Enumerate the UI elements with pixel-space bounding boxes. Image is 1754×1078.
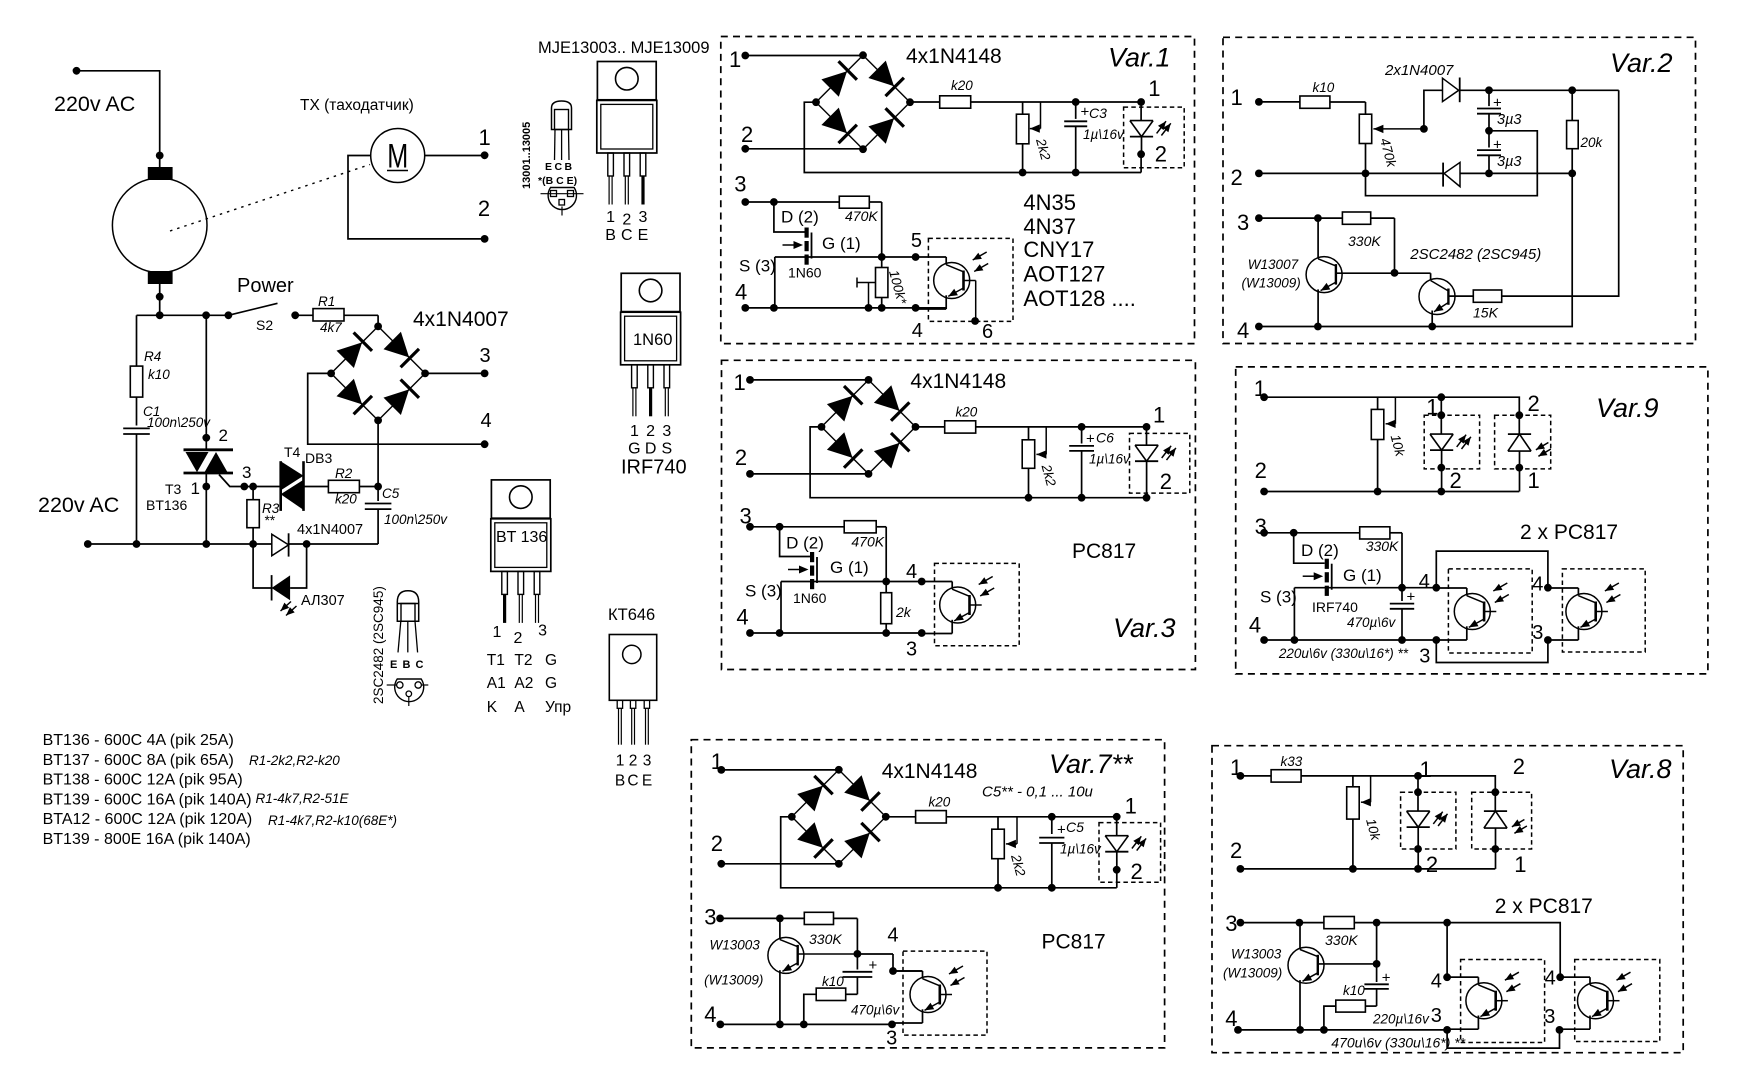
svg-text:BT138 - 600C 12A (pik 95A): BT138 - 600C 12A (pik 95A) (43, 772, 243, 789)
svg-text:S (3): S (3) (745, 582, 782, 601)
svg-text:S: S (661, 441, 672, 458)
svg-text:Var.7**: Var.7** (1049, 749, 1134, 779)
svg-text:BT136 - 600C 4A (pik 25A): BT136 - 600C 4A (pik 25A) (43, 732, 234, 749)
svg-text:3: 3 (242, 463, 251, 482)
svg-text:4: 4 (735, 280, 747, 305)
svg-text:BTA12 - 600C 12A (pik 120A): BTA12 - 600C 12A (pik 120A) (43, 811, 253, 828)
svg-text:k20: k20 (951, 78, 973, 93)
svg-text:T4: T4 (284, 444, 301, 460)
wire opto2 collector drop Var.8 (1447, 923, 1564, 990)
svg-text:330K: 330K (809, 931, 842, 947)
svg-text:k10: k10 (1313, 80, 1335, 95)
node 3 Var.3 (740, 504, 754, 531)
label 4x1N4007 (413, 308, 509, 331)
svg-text:1µ\16v: 1µ\16v (1060, 842, 1102, 857)
svg-text:1: 1 (1426, 395, 1438, 420)
label 13001..13005 (521, 122, 533, 189)
label 4x1N4148 Var.3 (910, 370, 1006, 393)
svg-text:3: 3 (1532, 622, 1543, 644)
svg-text:B: B (565, 161, 573, 173)
svg-text:2: 2 (1450, 468, 1462, 493)
label 470u note Var.8 (1331, 1035, 1465, 1051)
label pin 4 (481, 410, 492, 432)
wire 2 Var.9 (1264, 488, 1519, 496)
node 4 Var.3 (736, 605, 753, 637)
node 3 Var.8 (1225, 911, 1244, 936)
svg-text:2: 2 (735, 445, 747, 470)
wire 1 Var.7 (721, 769, 839, 771)
package TO-220 1N60 IRF740 (621, 273, 681, 416)
node 1 Var.1 (729, 47, 749, 72)
svg-text:4: 4 (481, 410, 492, 432)
dashed box opto2 Var.9 (1562, 569, 1645, 652)
svg-text:G: G (545, 675, 557, 692)
trimmer 2k2 Var.7 (992, 817, 1029, 888)
svg-text:4N35: 4N35 (1023, 190, 1076, 215)
svg-text:*(B C E): *(B C E) (538, 175, 577, 187)
label 4x1N4148 Var.1 (906, 45, 1002, 68)
svg-text:2: 2 (711, 831, 723, 856)
svg-text:k33: k33 (1281, 754, 1303, 769)
svg-text:2k: 2k (895, 604, 912, 620)
node base junction Var.7 (854, 950, 894, 958)
resistor R4 k10 (130, 349, 170, 426)
wire bridge to pin 3 (425, 370, 488, 378)
svg-text:BT137 - 600C 8A (pik 65A): BT137 - 600C 8A (pik 65A) (43, 752, 234, 769)
svg-text:АЛ307: АЛ307 (301, 593, 345, 609)
LED Var.3 (1135, 403, 1176, 498)
svg-text:T3: T3 (165, 481, 182, 497)
wire 2 Var.3 (750, 473, 869, 475)
svg-text:A: A (514, 699, 525, 716)
svg-text:C5: C5 (382, 486, 400, 501)
wire opto1 collector drop Var.8 (1431, 923, 1451, 993)
svg-text:3: 3 (1225, 911, 1237, 936)
svg-text:1: 1 (1528, 468, 1540, 493)
svg-text:E: E (545, 161, 552, 173)
dashed box LED1 Var.8 (1401, 792, 1456, 849)
svg-text:220v AC: 220v AC (38, 493, 119, 517)
svg-text:2: 2 (646, 423, 655, 440)
resistor R3 (247, 487, 280, 545)
svg-text:330K: 330K (1325, 932, 1358, 948)
svg-text:T2: T2 (514, 652, 532, 669)
svg-text:MJE13003.. MJE13009: MJE13003.. MJE13009 (538, 39, 710, 57)
resistor 470K Var.3 (844, 521, 886, 582)
wire 3 Var.9 (1264, 529, 1360, 537)
svg-text:2 x PC817: 2 x PC817 (1495, 895, 1593, 918)
node 1 Var.3 (734, 370, 754, 395)
capacitor 3u3 lower (1477, 131, 1521, 174)
dashed box Var.3 (722, 360, 1196, 669)
svg-text:2: 2 (741, 122, 753, 147)
wire 220v AC phase to motor (73, 67, 164, 167)
label 220u note Var.9 (1278, 646, 1409, 661)
svg-text:+: + (1086, 430, 1095, 447)
diode D2 1N4007 (1443, 162, 1576, 186)
wire diac to R2 (304, 486, 329, 488)
svg-text:3: 3 (662, 423, 671, 440)
dashed box opto2 Var.8 (1575, 960, 1660, 1042)
optocoupler transistor Var.1 (912, 252, 993, 343)
resistor 20k Var.2 (1567, 90, 1604, 173)
svg-text:Var.1: Var.1 (1108, 43, 1171, 73)
svg-text:5: 5 (911, 230, 922, 252)
svg-text:+: + (1382, 970, 1391, 987)
svg-text:1: 1 (1420, 757, 1432, 782)
svg-text:4: 4 (736, 605, 748, 630)
dashed box opto Var.1 (928, 238, 1013, 321)
svg-text:+: + (869, 957, 878, 974)
svg-text:4: 4 (1431, 971, 1442, 993)
trimmer 2k2 Var.1 (1016, 102, 1053, 173)
dashed box opto Var.7 (903, 951, 987, 1035)
wire caps midpoint loop (1366, 131, 1538, 196)
resistor 330K Var.2 (1342, 212, 1394, 272)
node 4 Var.2 (1237, 318, 1263, 343)
optocoupler PC817 no2 Var.9 (1548, 583, 1621, 640)
svg-text:k20: k20 (929, 795, 951, 810)
svg-text:3µ3: 3µ3 (1497, 112, 1521, 128)
label 4x1N4148 Var.7 (882, 760, 978, 783)
label PC817 Var.7 (1042, 931, 1106, 954)
svg-text:15K: 15K (1473, 305, 1499, 321)
svg-text:3: 3 (480, 345, 491, 367)
svg-text:2 x PC817: 2 x PC817 (1520, 521, 1618, 544)
wire power rail (137, 311, 233, 319)
svg-text:3: 3 (704, 905, 716, 930)
svg-text:4k7: 4k7 (320, 320, 342, 335)
capacitor C6 1u/16v (1069, 423, 1131, 498)
svg-text:2: 2 (1528, 391, 1540, 416)
optocoupler PC817 Var.3 (922, 577, 995, 634)
svg-text:20k: 20k (1580, 135, 1604, 150)
svg-text:220µ\16v: 220µ\16v (1372, 1012, 1430, 1027)
label Var.2 (1610, 48, 1673, 78)
svg-text:6: 6 (982, 321, 993, 343)
svg-text:2x1N4007: 2x1N4007 (1384, 62, 1454, 79)
capacitor C5 1u/16v Var.7 (1039, 813, 1102, 888)
resistor 470K Var.1 (839, 196, 881, 257)
mosfet 1N60 Var.3 (745, 527, 886, 633)
svg-text:W13003: W13003 (710, 938, 761, 953)
diode D1 1N4007 (1443, 78, 1619, 103)
diac T4 DB3 (281, 444, 333, 511)
node 2 Var.9 (1255, 458, 1268, 495)
svg-text:BT139 - 600C 16A (pik 140A): BT139 - 600C 16A (pik 140A) (43, 791, 252, 808)
resistor 330K Var.9 (1360, 527, 1402, 588)
node 3 Var.9 (1255, 514, 1268, 539)
svg-text:D (2): D (2) (781, 208, 819, 227)
resistor k20 Var.7 (886, 795, 1117, 824)
transistor Q1 W13007 (1242, 218, 1395, 326)
svg-text:1: 1 (1231, 85, 1243, 110)
wire rail 4 Var.1 (745, 304, 946, 312)
svg-text:4: 4 (1419, 571, 1430, 593)
svg-text:IRF740: IRF740 (621, 457, 687, 479)
bridge rectifier 4x1N4007 (327, 323, 429, 425)
capacitor C5 100n/250v (307, 486, 449, 544)
svg-text:100n\250v: 100n\250v (147, 415, 211, 430)
dashed box Var.2 (1223, 37, 1696, 343)
svg-text:E: E (390, 659, 397, 671)
svg-text:4x1N4148: 4x1N4148 (910, 370, 1006, 393)
label 220v AC top (54, 92, 135, 116)
dashed box LED2 Var.8 (1472, 792, 1532, 849)
resistor k10 Var.8 (1324, 983, 1377, 1030)
dashed box opto Var.3 (935, 563, 1020, 645)
transistor Q2 2SC2482 (1409, 246, 1541, 327)
svg-text:2: 2 (1426, 852, 1438, 877)
bridge 4x1N4148 Var.1 (812, 51, 914, 153)
svg-text:(W13009): (W13009) (704, 973, 763, 988)
wire 1 to bridge (745, 55, 863, 57)
pin labels E B C (390, 659, 424, 671)
dashed box LED1 Var.9 (1424, 415, 1479, 469)
package TO-220 MJE1300x (597, 62, 657, 205)
svg-text:1: 1 (191, 479, 200, 498)
pin labels MJE1300x (605, 209, 648, 244)
svg-text:G: G (628, 441, 640, 458)
svg-text:2: 2 (1513, 754, 1525, 779)
resistor 15K Var.2 (1473, 290, 1502, 321)
dashed box LED2 Var.9 (1495, 415, 1551, 469)
svg-text:R1-4k7,R2-k10(68E*): R1-4k7,R2-k10(68E*) (268, 813, 397, 828)
svg-text:A2: A2 (514, 675, 533, 692)
optocoupler PC817 no1 Var.9 (1436, 583, 1509, 640)
svg-text:3: 3 (1544, 1006, 1555, 1028)
svg-text:1: 1 (493, 624, 502, 641)
label opto types (1023, 190, 1136, 311)
svg-text:R1: R1 (318, 294, 335, 309)
svg-text:3: 3 (1419, 646, 1430, 668)
svg-text:BT136: BT136 (146, 497, 187, 513)
svg-text:B: B (605, 227, 616, 244)
svg-text:330K: 330K (1348, 233, 1381, 249)
svg-text:S2: S2 (256, 317, 273, 333)
resistor 330K Var.7 (804, 912, 857, 953)
triac T3 BT136 (146, 315, 251, 544)
wire rail 4 Var.7 (720, 1021, 897, 1050)
LED1 Var.8 (1407, 757, 1448, 877)
mosfet IRF740 Var.9 (1260, 533, 1402, 640)
svg-text:КТ646: КТ646 (608, 606, 655, 624)
label 2x1N4007 (1384, 62, 1454, 79)
svg-text:4x1N4148: 4x1N4148 (906, 45, 1002, 68)
svg-text:3: 3 (1431, 1005, 1442, 1027)
svg-text:1: 1 (616, 753, 625, 770)
svg-text:1: 1 (1153, 403, 1165, 428)
trimmer 10k Var.9 (1371, 397, 1408, 491)
label MJE13003.. MJE13009 (538, 39, 710, 57)
svg-text:4: 4 (704, 1002, 716, 1027)
svg-text:+: + (1057, 822, 1066, 839)
wire 1 to LED2 Var.9 (1441, 397, 1519, 415)
wire bridge left loop Var.7 (781, 817, 1117, 892)
svg-text:3: 3 (639, 209, 648, 226)
svg-text:R1-2k2,R2-k20: R1-2k2,R2-k20 (249, 753, 340, 768)
resistor k33 Var.8 (1240, 754, 1418, 782)
svg-text:k20: k20 (335, 492, 357, 507)
svg-text:C5** - 0,1 ... 10u: C5** - 0,1 ... 10u (982, 784, 1094, 801)
pin labels BT136 (487, 623, 571, 717)
node 3 Var.7 (704, 905, 724, 930)
node 1 Var.8 (1230, 755, 1244, 780)
svg-text:1N60: 1N60 (633, 331, 672, 349)
svg-text:4N37: 4N37 (1023, 214, 1076, 239)
node 2 Var.8 (1230, 838, 1244, 873)
resistor k20 Var.3 (916, 405, 1147, 434)
svg-text:1: 1 (729, 47, 741, 72)
package TO-220 BT136 (491, 480, 551, 623)
svg-text:IRF740: IRF740 (1312, 599, 1358, 615)
svg-text:Power: Power (237, 275, 294, 297)
label C5 note Var.7 (982, 784, 1094, 801)
label 2 x PC817 Var.8 (1495, 895, 1593, 918)
svg-text:1N60: 1N60 (788, 265, 822, 281)
capacitor 470u Var.7 (843, 954, 901, 1018)
svg-text:2: 2 (629, 753, 638, 770)
svg-text:2: 2 (1155, 142, 1167, 167)
svg-text:4: 4 (1237, 318, 1249, 343)
LED АЛ307 (253, 544, 345, 616)
wire right vertical Var.2 (1502, 90, 1619, 296)
package TO-126 KT646 (608, 606, 657, 745)
wire bridge bottom to C5 (377, 420, 379, 501)
svg-text:1: 1 (1125, 794, 1137, 819)
svg-text:Var.8: Var.8 (1609, 754, 1672, 784)
node 4 Var.7 (704, 1002, 724, 1028)
svg-text:R1-4k7,R2-51E: R1-4k7,R2-51E (256, 791, 350, 806)
svg-text:k10: k10 (148, 367, 170, 382)
wire 3 Var.8 (1240, 919, 1324, 927)
optocoupler PC817 no1 Var.8 (1448, 972, 1521, 1029)
capacitor 3u3 upper (1477, 90, 1521, 134)
svg-text:3: 3 (886, 1028, 897, 1050)
wire rail 4 Var.3 (750, 629, 926, 660)
svg-text:330K: 330K (1366, 538, 1399, 554)
trimmer 10k Var.8 (1347, 776, 1384, 869)
wire to bridge top (377, 315, 379, 326)
trimmer 470k Var.2 (1359, 102, 1428, 173)
svg-text:R4: R4 (144, 349, 161, 364)
svg-text:S (3): S (3) (1260, 588, 1297, 607)
svg-text:Упр: Упр (545, 699, 571, 716)
svg-text:k10: k10 (1343, 983, 1365, 998)
svg-text:1: 1 (734, 370, 746, 395)
package TO-92 2SC2482 side view (371, 586, 419, 704)
svg-text:+: + (1407, 589, 1416, 606)
svg-text:4x1N4007: 4x1N4007 (297, 522, 363, 538)
label TX tachometer (300, 97, 414, 114)
resistor k10 Var.2 (1259, 80, 1366, 108)
wire rail 4 Var.8 (1238, 1026, 1451, 1034)
optocoupler PC817 Var.7 (892, 966, 965, 1023)
pin labels KT646 (615, 753, 652, 790)
wire bridge left loop Var.1 (804, 102, 1141, 176)
svg-text:4x1N4007: 4x1N4007 (413, 308, 509, 331)
svg-text:G: G (545, 652, 557, 669)
svg-text:PC817: PC817 (1072, 540, 1136, 563)
svg-text:DB3: DB3 (305, 450, 332, 466)
wire 1 to LED2 Var.8 (1418, 776, 1495, 792)
svg-text:2SC2482 (2SC945): 2SC2482 (2SC945) (371, 586, 386, 704)
node 2 Var.1 (741, 122, 753, 153)
svg-text:BT139 - 800E 16A (pik 140A): BT139 - 800E 16A (pik 140A) (43, 831, 251, 848)
node 3 Var.2 (1237, 210, 1263, 235)
svg-text:1: 1 (1148, 76, 1160, 101)
svg-text:2: 2 (622, 212, 631, 229)
svg-text:4: 4 (912, 320, 923, 342)
svg-text:E: E (642, 773, 652, 790)
label Var.1 (1108, 43, 1171, 73)
dashed box opto1 Var.9 (1448, 569, 1532, 653)
svg-text:**: ** (264, 513, 275, 528)
svg-text:2: 2 (478, 196, 490, 221)
node 4 Var.9 (1249, 613, 1268, 644)
wire 1 Var.9 (1264, 393, 1445, 401)
svg-text:PC817: PC817 (1042, 931, 1106, 954)
resistor 330K Var.8 (1324, 917, 1451, 949)
label pin 3 (480, 345, 491, 367)
svg-text:3: 3 (538, 623, 547, 640)
optocoupler PC817 no2 Var.8 (1560, 972, 1633, 1029)
svg-text:2: 2 (1230, 838, 1242, 863)
trimmer 100k Var.1 (857, 257, 910, 308)
svg-text:B: B (403, 659, 411, 671)
svg-text:E: E (638, 227, 649, 244)
wire bridge left loop to pin 4 (308, 373, 489, 448)
svg-text:4: 4 (906, 561, 917, 583)
svg-text:13001..13005: 13001..13005 (521, 122, 533, 189)
pin labels E C B (538, 161, 577, 187)
svg-text:3: 3 (906, 639, 917, 661)
node 4 Var.8 (1225, 1006, 1242, 1034)
node G junction Var.3 (882, 561, 925, 585)
wire bottom rail (84, 540, 272, 548)
wire 3 Var.2 (1259, 214, 1343, 222)
LED Var.7 (1105, 794, 1146, 888)
svg-text:100n\250v: 100n\250v (384, 512, 448, 527)
LED2 Var.8 reversed (1484, 754, 1527, 877)
dashed box Var.1 (721, 37, 1195, 344)
dashed box Var.9 (1236, 367, 1708, 674)
svg-text:2: 2 (1131, 859, 1143, 884)
node 4 opto Var.7 (887, 925, 898, 975)
label Var.9 (1596, 393, 1659, 423)
node 2 Var.7 (711, 831, 725, 868)
svg-text:T1: T1 (487, 652, 505, 669)
svg-text:2: 2 (1231, 165, 1243, 190)
node 4 Var.1 (735, 280, 749, 312)
svg-text:2: 2 (219, 426, 228, 445)
svg-text:ТХ (таходатчик): ТХ (таходатчик) (300, 97, 414, 114)
svg-text:1: 1 (630, 423, 639, 440)
svg-text:4x1N4148: 4x1N4148 (882, 760, 978, 783)
svg-text:470µ\6v: 470µ\6v (851, 1003, 901, 1018)
wire opto collector Var.7 (893, 970, 923, 972)
svg-text:220v AC: 220v AC (54, 92, 135, 116)
svg-text:2: 2 (1255, 458, 1267, 483)
svg-text:3: 3 (1237, 210, 1249, 235)
svg-text:k10: k10 (822, 974, 844, 989)
package TO-92 13001..13005 side view (552, 101, 572, 160)
svg-text:(W13009): (W13009) (1223, 966, 1282, 981)
svg-text:2SC2482 (2SC945): 2SC2482 (2SC945) (1409, 246, 1541, 263)
capacitor 470u/6v Var.9 (1347, 588, 1416, 640)
label Var.3 (1113, 613, 1176, 643)
node 1 Var.9 (1254, 376, 1268, 401)
